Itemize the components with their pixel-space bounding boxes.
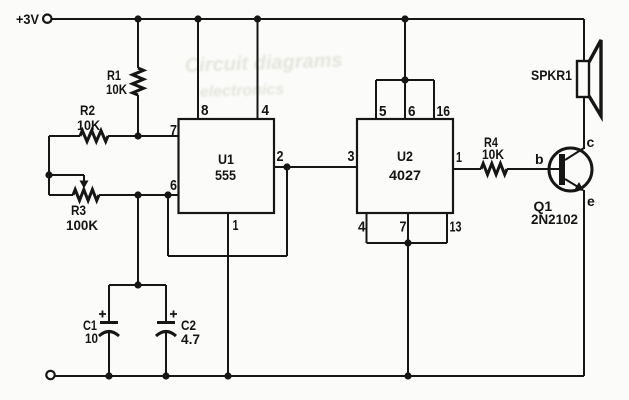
wire U1 pin 8 from rail [197, 19, 199, 119]
svg-text:2: 2 [277, 148, 284, 165]
wire bottom ground rail [55, 375, 584, 377]
wire U2 pin 4 [366, 213, 368, 243]
wire R3 left lead [49, 194, 73, 196]
junction R1 R2 pin7 node [134, 132, 141, 139]
wire U1 pin 1 to ground rail [227, 213, 229, 376]
svg-text:4027: 4027 [389, 167, 421, 183]
wire R3 wiper arrow stem [83, 175, 85, 182]
wire R3 right lead to U1 pin 6 [99, 194, 179, 196]
svg-text:1: 1 [233, 217, 239, 234]
svg-text:4.7: 4.7 [181, 331, 200, 347]
svg-text:SPKR1: SPKR1 [531, 67, 572, 83]
svg-text:R3: R3 [71, 202, 86, 218]
potentiometer R3 [66, 181, 99, 234]
svg-text:+3V: +3V [16, 11, 40, 27]
svg-text:555: 555 [215, 167, 236, 183]
wire U2 clock feed from rail [404, 19, 406, 80]
wire U1 pin 4 from rail [257, 19, 259, 119]
wire U2 top bracket [376, 79, 434, 81]
junction pin 2 node [283, 163, 290, 170]
wire R2 left lead [49, 135, 80, 137]
wire R1 top [137, 19, 139, 68]
svg-text:10K: 10K [482, 146, 504, 162]
wire emitter down to bottom rail [583, 190, 585, 376]
junction R3 capacitor branch [134, 191, 141, 198]
wire top supply rail [52, 18, 584, 20]
junction top rail U2 feed [401, 15, 408, 22]
svg-text:e: e [587, 193, 595, 209]
terminal ground [46, 371, 54, 379]
wire U2 pin 13 [446, 213, 448, 243]
wire C2 bottom lead [165, 331, 167, 376]
junction U2 bottom bracket [404, 239, 411, 246]
wire R3 wiper tap horizontal [49, 174, 84, 176]
svg-text:electronics: electronics [200, 81, 285, 101]
junction capacitor branch top [134, 281, 141, 288]
svg-text:7: 7 [400, 219, 407, 236]
op-amp U1 555 timer box [179, 119, 275, 213]
junction top rail pin 4 [254, 15, 261, 22]
svg-text:U1: U1 [218, 151, 234, 167]
resistor R4 [481, 134, 507, 175]
svg-text:c: c [587, 134, 595, 150]
junction ground rail U1 pin1 [224, 372, 231, 379]
transistor Q1 2N2102 [531, 134, 595, 227]
junction top rail pin 8 [194, 15, 201, 22]
svg-text:4: 4 [358, 219, 366, 236]
wire feedback right vertical pin2 down [286, 167, 288, 256]
svg-text:4: 4 [262, 102, 270, 119]
wire C2 top lead [165, 285, 167, 322]
wire U2 pin 16 [433, 80, 435, 119]
wire U2 pin 6 [404, 80, 406, 119]
svg-text:16: 16 [437, 103, 451, 120]
wire capacitor branch horizontal [109, 284, 166, 286]
wire U2 pin 5 [375, 80, 377, 119]
junction top rail R1 [134, 15, 141, 22]
junction ground rail C1 [105, 372, 112, 379]
resistor R1 [106, 67, 144, 97]
svg-text:10: 10 [85, 330, 98, 346]
svg-text:10K: 10K [77, 117, 100, 133]
wire feedback left vertical to pin 6 [167, 195, 169, 256]
wire U2 pin 7 to ground rail [407, 243, 409, 376]
junction ground rail C2 [162, 372, 169, 379]
wire U1 pin 2 to U2 pin 3 [274, 166, 357, 168]
wire C1 bottom lead [108, 331, 110, 376]
svg-text:5: 5 [379, 103, 387, 120]
wire R4 to base [507, 168, 559, 170]
svg-text:2N2102: 2N2102 [531, 211, 578, 227]
op-amp U2 4027 box [357, 119, 453, 213]
svg-text:6: 6 [408, 103, 416, 120]
wire capacitor branch vertical [137, 195, 139, 285]
wire U2 bottom bracket [367, 242, 448, 244]
svg-text:U2: U2 [397, 148, 413, 164]
wire left rail R2 to R3 [48, 136, 50, 195]
faint scan watermark [184, 50, 342, 101]
speaker SPKR1 [531, 40, 601, 116]
svg-text:7: 7 [170, 122, 177, 139]
svg-text:100K: 100K [66, 217, 98, 233]
svg-text:3: 3 [348, 148, 355, 165]
svg-text:10K: 10K [106, 81, 127, 97]
junction pin 6 node [164, 191, 171, 198]
svg-text:8: 8 [201, 102, 209, 119]
wire C1 top lead [108, 285, 110, 322]
svg-text:6: 6 [170, 177, 177, 194]
wire R1 bottom [137, 95, 139, 136]
resistor R2 [77, 102, 108, 142]
terminal +3V [16, 11, 52, 27]
wire right vertical speaker to collector [583, 19, 585, 61]
capacitor C2 [156, 311, 200, 348]
wire R2 right lead to U1 pin 7 [108, 135, 179, 137]
wire speaker bottom to collector node [583, 97, 585, 149]
svg-text:13: 13 [450, 219, 462, 236]
svg-text:R2: R2 [80, 102, 95, 118]
wire feedback bottom horizontal [168, 255, 287, 257]
junction wiper tap [45, 171, 52, 178]
svg-text:1: 1 [456, 149, 462, 166]
junction ground rail U2 pin7 [404, 372, 411, 379]
junction U2 top bracket [401, 76, 408, 83]
capacitor C1 [83, 311, 119, 347]
wire U2 pin 1 to R4 [453, 168, 481, 170]
wire U2 pin 7 [407, 213, 409, 243]
svg-text:b: b [535, 151, 544, 167]
